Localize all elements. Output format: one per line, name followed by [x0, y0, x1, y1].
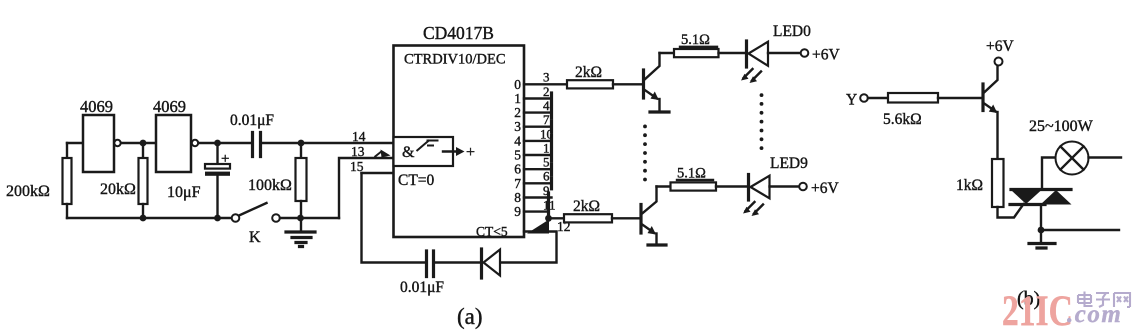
wire 200k bottom to rail [66, 204, 68, 218]
wire triac MT1 down [1040, 205, 1042, 231]
node junction 100k top [298, 140, 305, 147]
transistor Q1 [642, 70, 645, 98]
wire 2k to Q1 base [613, 83, 643, 85]
wire lamp to right [1089, 156, 1122, 158]
capacitor 0.01uF feedback [427, 251, 434, 277]
transistor Q2 [639, 205, 642, 234]
wire 100k top drop [300, 143, 302, 158]
bubble U1a output [114, 140, 120, 146]
triac VS [1011, 188, 1071, 191]
bubble U1b output [192, 140, 198, 146]
wire pin12 CT&lt;5 feedback [500, 232, 557, 263]
terminal +6V row9 [799, 183, 807, 191]
svg-text:100kΩ: 100kΩ [248, 177, 292, 194]
capacitor C2 10uF polarized [205, 164, 230, 169]
switch K [232, 214, 240, 222]
resistor 2kOhm top [567, 80, 613, 88]
count-up arrow [443, 150, 457, 152]
node junction MT1 [1038, 227, 1045, 234]
wire U1b out to cap C1 [199, 142, 253, 144]
svg-text:K: K [249, 229, 261, 246]
wire 5.1 to LED9 [716, 185, 747, 187]
svg-text:10μF: 10μF [167, 184, 201, 201]
svg-text:LED0: LED0 [773, 23, 811, 40]
svg-text:15: 15 [350, 159, 364, 174]
svg-text:4: 4 [543, 98, 550, 113]
svg-text:5: 5 [514, 148, 521, 163]
svg-text:200kΩ: 200kΩ [6, 183, 50, 200]
svg-text:4: 4 [514, 133, 521, 148]
wire pin13 riser [339, 158, 394, 218]
ellipsis dots transistor column [643, 125, 647, 182]
resistor 5.1Ohm bottom [671, 182, 717, 190]
resistor 20kOhm [139, 158, 148, 204]
op-amp U2 body CD4017B [394, 46, 525, 238]
capacitor C1 0.01uF series [253, 133, 261, 157]
svg-text:10: 10 [540, 126, 553, 141]
svg-text:8: 8 [514, 190, 521, 205]
node junction 10uF bottom [214, 215, 221, 222]
svg-text:LED9: LED9 [770, 155, 808, 172]
svg-text:7: 7 [514, 176, 521, 191]
wire 200k top drop [66, 143, 68, 158]
svg-text:5: 5 [543, 155, 550, 170]
svg-text:2kΩ: 2kΩ [573, 198, 600, 215]
wire Y to 5.6k [868, 97, 888, 99]
wire emitter to 1k [996, 112, 998, 159]
pin stubs rows 1-8 with end ticks [524, 97, 552, 99]
resistor 1kOhm [992, 159, 1004, 207]
ground G1 [300, 218, 302, 232]
LED9 [747, 175, 750, 201]
svg-text:2kΩ: 2kΩ [575, 64, 602, 81]
svg-text:1kΩ: 1kΩ [956, 177, 983, 194]
svg-text:7: 7 [543, 112, 550, 127]
resistor 100kOhm [296, 158, 307, 201]
wire 20k bottom to rail [142, 204, 144, 218]
wire output0 pin3 to 2k [524, 83, 567, 85]
svg-text:4069: 4069 [80, 97, 113, 116]
svg-text:+6V: +6V [986, 38, 1014, 55]
inner clock block [394, 137, 454, 166]
ground Q2 emitter [648, 243, 666, 246]
wire LED9 to +6V [770, 185, 800, 187]
wire C1 to pin14 [262, 142, 394, 144]
node junction 20k bottom [140, 215, 147, 222]
wire switch to pin13 drop [280, 217, 339, 219]
edge mark on pin 13 [375, 151, 383, 157]
svg-text:0.01μF: 0.01μF [230, 112, 274, 129]
wire junction to 2k bottom [549, 217, 565, 219]
svg-text:0: 0 [514, 77, 521, 92]
resistor 2kOhm bottom [564, 214, 612, 222]
svg-text:+: + [221, 151, 229, 167]
svg-text:+6V: +6V [811, 180, 839, 197]
wire U1a out to U1b in [121, 142, 156, 144]
wire 1k to triac gate [998, 204, 1024, 218]
wire bottom to right [1041, 229, 1119, 231]
wire triac MT2 to lamp branch [1042, 158, 1055, 190]
svg-text:Y: Y [846, 92, 857, 109]
svg-text:2: 2 [514, 105, 521, 120]
svg-text:2: 2 [543, 84, 550, 99]
edge symbol inside block [417, 140, 439, 151]
svg-text:3: 3 [543, 70, 550, 85]
bottom rail wire left [67, 217, 232, 219]
svg-text:13: 13 [351, 144, 365, 159]
lamp 25~100W [1056, 142, 1089, 175]
node junction ground [297, 215, 304, 222]
LED0 [745, 41, 748, 67]
node junction row9 [545, 215, 552, 222]
svg-text:21IC: 21IC [1002, 288, 1073, 335]
wire output9 pin11 [524, 210, 549, 212]
resistor 200kOhm [63, 158, 72, 204]
ground Q1 emitter [650, 110, 669, 113]
wire 20k top drop [142, 143, 144, 158]
ground (b) [1040, 230, 1042, 242]
svg-text:6: 6 [514, 162, 521, 177]
diode VD [480, 249, 483, 278]
wire collector to 5.1 [660, 52, 675, 54]
wire 10uF top drop [216, 143, 218, 164]
wire pin15 [362, 172, 394, 174]
ellipsis dots LED column [760, 93, 764, 150]
svg-text:3: 3 [514, 119, 521, 134]
node junction 10uF top [214, 140, 221, 147]
wire diode to cap [434, 261, 482, 263]
terminal +6V row0 [801, 49, 809, 57]
node junction 20k top [140, 140, 147, 147]
svg-text:6: 6 [543, 169, 550, 184]
wire input to first inverter [67, 142, 83, 144]
svg-text:+: + [466, 144, 475, 161]
wire pin15 riser to feedback [362, 173, 426, 263]
svg-text:+6V: +6V [812, 47, 840, 64]
resistor 5.1Ohm top [674, 49, 719, 57]
svg-text:5.6kΩ: 5.6kΩ [883, 111, 922, 128]
svg-text:CD4017B: CD4017B [423, 23, 494, 43]
svg-text:20kΩ: 20kΩ [100, 181, 136, 198]
svg-text:14: 14 [352, 129, 366, 144]
wire 2k to Q2 base [612, 217, 641, 219]
wire 100k bottom to rail [300, 201, 302, 218]
inverter U1b 4069 [156, 115, 191, 172]
watermark chinese chars [1078, 292, 1130, 308]
svg-text:CT<5: CT<5 [476, 224, 508, 239]
svg-text:25~100W: 25~100W [1029, 118, 1094, 135]
svg-text:0.01μF: 0.01μF [400, 279, 444, 296]
svg-text:CT=0: CT=0 [398, 172, 435, 189]
svg-text:1: 1 [543, 140, 550, 155]
wire 5.1 to LED0 [719, 52, 746, 54]
svg-text:1: 1 [514, 91, 521, 106]
svg-text:&: & [402, 144, 415, 161]
svg-text:CTRDIV10/DEC: CTRDIV10/DEC [404, 52, 506, 68]
wire 5.6k to Q3 base [938, 97, 983, 99]
svg-text:9: 9 [514, 204, 521, 219]
resistor 5.6kOhm [888, 93, 938, 103]
wire collector to 5.1 bottom [657, 185, 671, 187]
inverter U1a 4069 [83, 115, 114, 172]
wire LED0 to +6V [768, 52, 801, 54]
corner blob at pin12 [527, 220, 549, 234]
vertical bar at pin 9/11 [547, 193, 550, 218]
svg-text:(a): (a) [457, 304, 483, 329]
transistor Q3 [981, 84, 984, 111]
svg-text:4069: 4069 [153, 97, 186, 116]
wire 10uF bottom to rail [216, 176, 218, 218]
terminal +6V (b) [995, 58, 1003, 66]
